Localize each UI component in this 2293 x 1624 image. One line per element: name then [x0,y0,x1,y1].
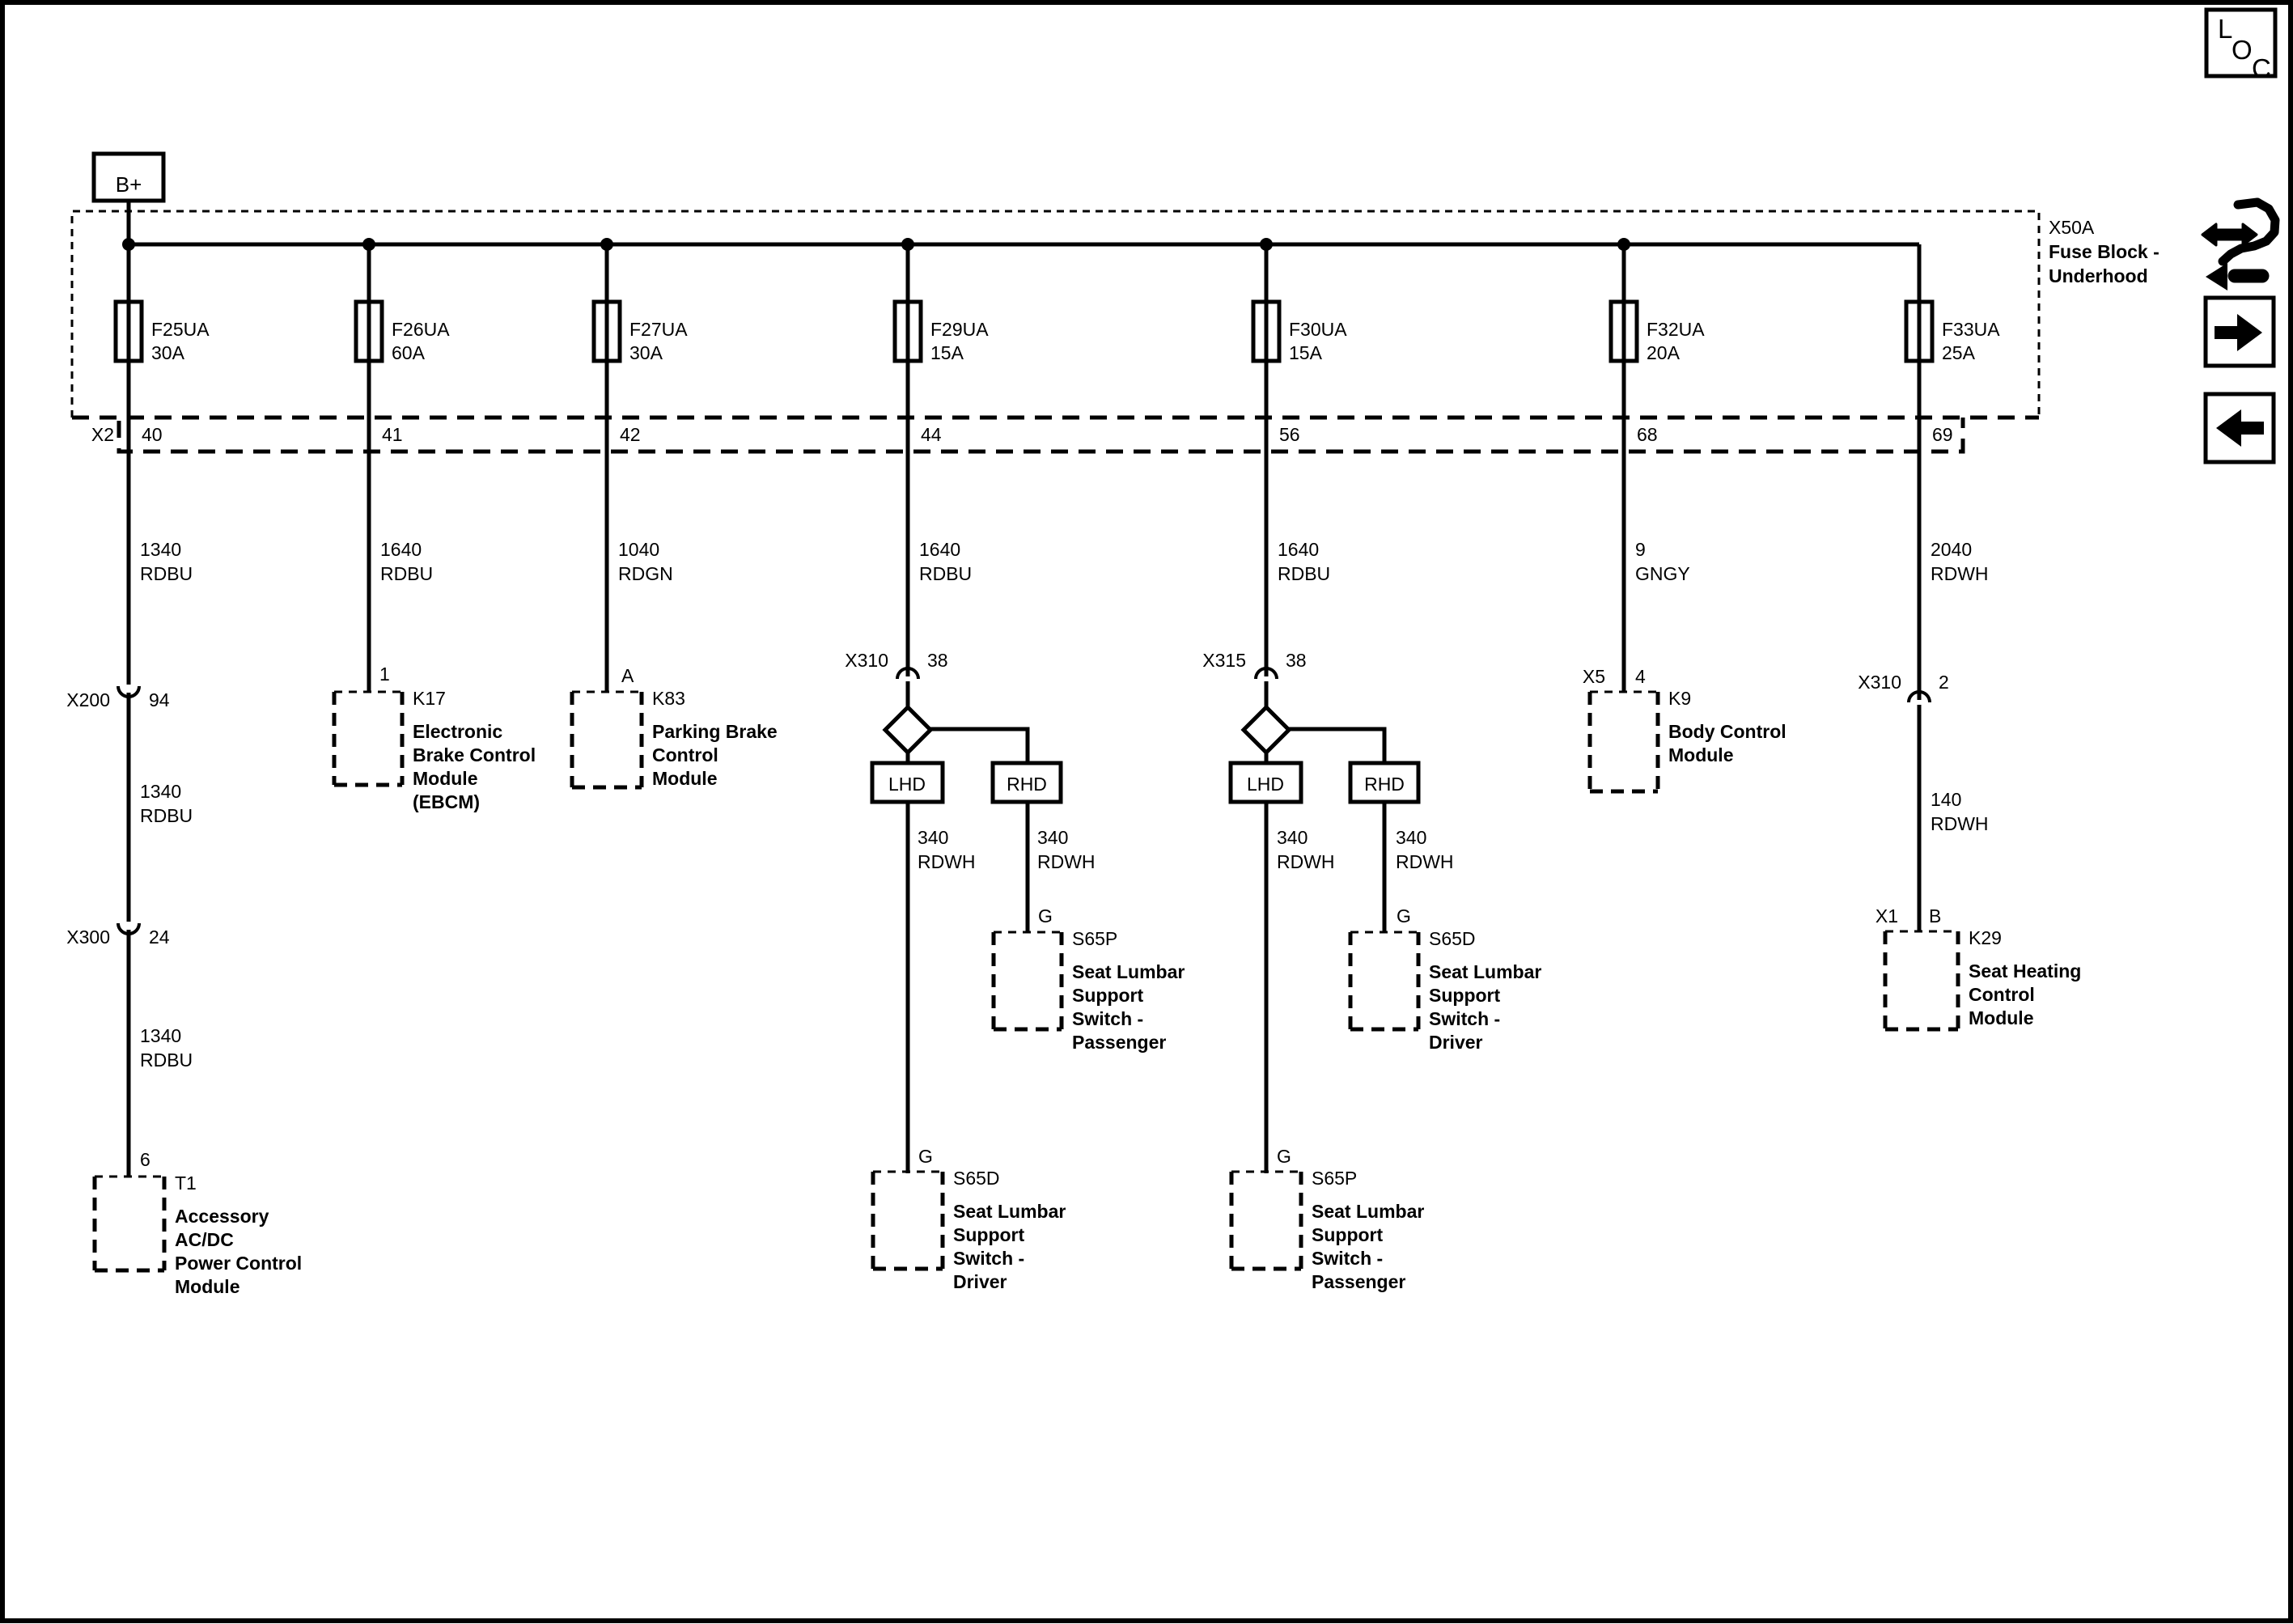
svg-text:Module: Module [652,768,718,789]
svg-text:69: 69 [1932,424,1953,445]
svg-text:1340: 1340 [140,1025,181,1046]
svg-text:RDBU: RDBU [140,805,193,826]
svg-text:Support: Support [1312,1224,1383,1245]
icon arrow left [2206,394,2274,462]
svg-text:X2: X2 [91,424,114,445]
wire 340 RDWH (LHD to S65P) [1266,802,1335,1173]
svg-text:1: 1 [379,664,390,685]
svg-text:(EBCM): (EBCM) [413,791,480,812]
wire 1640 RDBU (F26UA to K17) [369,244,433,691]
connector X315 pin 38 [1202,650,1306,679]
wire branch diamond to RHD [1289,729,1384,763]
svg-text:56: 56 [1279,424,1300,445]
connector X2 row [72,418,2039,452]
svg-text:Seat Heating: Seat Heating [1969,960,2081,982]
svg-text:Electronic: Electronic [413,721,502,742]
svg-text:S65P: S65P [1072,928,1117,949]
svg-text:Support: Support [1429,985,1500,1006]
svg-text:Switch -: Switch - [1312,1248,1383,1269]
option LHD [1231,763,1301,802]
svg-text:38: 38 [1286,650,1307,671]
wire 1040 RDGN (F27UA to K83) [607,244,673,691]
svg-text:Accessory: Accessory [175,1206,269,1227]
svg-text:1340: 1340 [140,539,181,560]
junction [362,238,375,251]
svg-text:F26UA: F26UA [392,319,450,340]
svg-text:LHD: LHD [888,774,926,795]
junction [901,238,914,251]
svg-text:6: 6 [140,1149,150,1170]
svg-text:1040: 1040 [618,539,659,560]
svg-text:Fuse Block -: Fuse Block - [2049,241,2159,262]
svg-text:G: G [1038,905,1053,926]
svg-text:RHD: RHD [1364,774,1405,795]
svg-text:9: 9 [1635,539,1646,560]
svg-text:RDWH: RDWH [1396,851,1454,872]
svg-text:Driver: Driver [953,1271,1007,1292]
svg-text:60A: 60A [392,342,426,363]
wire branch diamond to RHD [930,729,1028,763]
wire bus from B+ [127,243,1919,247]
svg-text:RDGN: RDGN [618,563,673,584]
svg-text:68: 68 [1637,424,1658,445]
svg-text:S65D: S65D [1429,928,1476,949]
svg-text:Module: Module [1969,1007,2034,1028]
svg-text:RDWH: RDWH [918,851,976,872]
svg-text:RDBU: RDBU [919,563,972,584]
svg-text:38: 38 [927,650,948,671]
junction [1617,238,1630,251]
svg-text:Seat Lumbar: Seat Lumbar [1312,1201,1424,1222]
wire 1340 RDBU (X200 to X300) [129,693,193,922]
fuse block X50A boundary [72,211,2159,418]
fuse F33UA 25A [1906,302,2000,363]
svg-text:Parking Brake: Parking Brake [652,721,778,742]
wire 9 GNGY (F32UA to K9) [1624,244,1690,691]
wire 340 RDWH (RHD to S65P) [1028,802,1096,933]
svg-text:K9: K9 [1668,688,1691,709]
svg-text:1640: 1640 [380,539,422,560]
svg-text:G: G [918,1146,933,1167]
svg-text:4: 4 [1635,666,1646,687]
svg-text:RDBU: RDBU [1278,563,1330,584]
svg-text:F33UA: F33UA [1942,319,2000,340]
fuse F32UA 20A [1611,302,1705,363]
svg-text:F25UA: F25UA [151,319,210,340]
wire X315 to diamond [1265,681,1269,707]
wire 2040 RDWH (F33UA to X310) [1919,244,1989,700]
svg-text:Seat Lumbar: Seat Lumbar [1429,961,1541,982]
svg-text:40: 40 [142,424,163,445]
svg-text:Body Control: Body Control [1668,721,1787,742]
svg-text:Control: Control [652,744,718,765]
svg-text:30A: 30A [629,342,663,363]
svg-text:2040: 2040 [1931,539,1972,560]
junction [122,238,135,251]
connector X200 pin 94 [66,686,170,710]
wire diamond to LHD [906,753,910,763]
svg-text:K29: K29 [1969,927,2002,948]
option LHD [872,763,943,802]
svg-text:LHD: LHD [1247,774,1284,795]
fuse F25UA 30A [116,302,210,363]
svg-text:Support: Support [953,1224,1024,1245]
svg-text:340: 340 [1396,827,1426,848]
svg-text:Underhood: Underhood [2049,265,2148,286]
svg-text:F29UA: F29UA [930,319,989,340]
svg-text:140: 140 [1931,789,1961,810]
svg-text:340: 340 [918,827,948,848]
svg-text:RDBU: RDBU [140,563,193,584]
wire X310 to diamond [906,681,910,707]
connector X300 pin 24 [66,923,170,948]
svg-text:S65D: S65D [953,1168,1000,1189]
connector X1 pin B [1876,905,1941,926]
svg-text:RDBU: RDBU [380,563,433,584]
svg-text:RDWH: RDWH [1931,563,1989,584]
svg-text:X200: X200 [66,689,110,710]
svg-text:15A: 15A [930,342,964,363]
svg-text:K83: K83 [652,688,685,709]
svg-text:1640: 1640 [1278,539,1319,560]
svg-text:Power Control: Power Control [175,1253,302,1274]
svg-text:GNGY: GNGY [1635,563,1690,584]
svg-text:RDWH: RDWH [1037,851,1096,872]
svg-text:AC/DC: AC/DC [175,1229,234,1250]
svg-text:Switch -: Switch - [1072,1008,1143,1029]
module S65D Seat Lumbar Support Switch - Driver [873,1168,1066,1292]
svg-text:A: A [621,665,634,686]
svg-text:340: 340 [1277,827,1308,848]
svg-text:F30UA: F30UA [1289,319,1347,340]
fuse F30UA 15A [1253,302,1347,363]
module K83 Parking Brake Control Module [572,688,778,789]
svg-text:15A: 15A [1289,342,1323,363]
svg-text:X5: X5 [1583,666,1605,687]
svg-text:L: L [2218,14,2232,44]
wire 140 RDWH (X310 to K29) [1919,705,1989,931]
svg-text:O: O [2232,35,2253,65]
wire 340 RDWH (RHD to S65D) [1384,802,1454,933]
svg-text:X300: X300 [66,926,110,948]
svg-text:G: G [1277,1146,1291,1167]
node B+ [94,154,163,201]
svg-text:Support: Support [1072,985,1143,1006]
svg-text:T1: T1 [175,1172,197,1194]
module S65P Seat Lumbar Support Switch - Passenger [1231,1168,1424,1292]
svg-text:Seat Lumbar: Seat Lumbar [953,1201,1066,1222]
svg-text:Driver: Driver [1429,1032,1483,1053]
svg-text:25A: 25A [1942,342,1976,363]
connector X310 pin 38 [845,650,947,679]
module K17 Electronic Brake Control Module (EBCM) [334,688,536,812]
svg-text:Passenger: Passenger [1312,1271,1405,1292]
svg-text:RDBU: RDBU [140,1049,193,1071]
svg-text:F32UA: F32UA [1647,319,1705,340]
svg-text:Passenger: Passenger [1072,1032,1166,1053]
svg-text:X310: X310 [845,650,888,671]
svg-text:RDWH: RDWH [1931,813,1989,834]
wire 340 RDWH (LHD to S65D) [908,802,976,1173]
svg-text:Module: Module [413,768,478,789]
svg-text:2: 2 [1939,672,1949,693]
svg-text:Brake Control: Brake Control [413,744,536,765]
svg-text:Switch -: Switch - [953,1248,1024,1269]
svg-text:340: 340 [1037,827,1068,848]
wire 1640 RDBU (F29UA to X310) [908,244,972,676]
svg-text:RDWH: RDWH [1277,851,1335,872]
wire 1340 RDBU (X300 to T1) [129,930,193,1177]
svg-text:Module: Module [175,1276,240,1297]
svg-text:X315: X315 [1202,650,1246,671]
svg-text:41: 41 [382,424,403,445]
module S65D Seat Lumbar Support Switch - Driver [1350,928,1541,1053]
svg-text:S65P: S65P [1312,1168,1357,1189]
svg-text:Control: Control [1969,984,2035,1005]
svg-text:B: B [1929,905,1941,926]
module K29 Seat Heating Control Module [1885,927,2081,1029]
option RHD [993,763,1061,802]
junction [600,238,613,251]
fuse F26UA 60A [356,302,450,363]
svg-text:Seat Lumbar: Seat Lumbar [1072,961,1185,982]
wire 1640 RDBU (F30UA to X315) [1266,244,1330,676]
svg-text:20A: 20A [1647,342,1681,363]
fuse F29UA 15A [895,302,989,363]
svg-text:X310: X310 [1858,672,1901,693]
junction [1260,238,1273,251]
svg-text:B+: B+ [116,172,142,197]
svg-text:F27UA: F27UA [629,319,688,340]
connector X5 pin 4 [1583,666,1646,687]
module T1 Accessory AC/DC Power Control Module [95,1172,302,1297]
svg-text:K17: K17 [413,688,446,709]
module K9 Body Control Module [1590,688,1787,791]
option split diamond [885,707,930,753]
option split diamond [1244,707,1289,753]
fuse F27UA 30A [594,302,688,363]
wire B+ feed [127,201,131,244]
svg-text:C: C [2252,53,2271,83]
svg-text:X1: X1 [1876,905,1898,926]
svg-text:30A: 30A [151,342,185,363]
svg-text:X50A: X50A [2049,217,2095,238]
icon arrow right [2206,298,2274,366]
connector X310 pin 2 [1858,672,1949,702]
svg-text:24: 24 [149,926,170,948]
LOC legend box [2206,10,2275,83]
svg-text:44: 44 [921,424,942,445]
svg-text:94: 94 [149,689,170,710]
svg-text:Switch -: Switch - [1429,1008,1500,1029]
svg-text:Module: Module [1668,744,1734,765]
svg-text:G: G [1397,905,1411,926]
wire diamond to LHD [1265,753,1269,763]
svg-text:RHD: RHD [1007,774,1047,795]
module S65P Seat Lumbar Support Switch - Passenger [994,928,1185,1053]
svg-text:1640: 1640 [919,539,960,560]
svg-text:42: 42 [620,424,641,445]
option RHD [1350,763,1418,802]
wire 1340 RDBU (F25UA to X200) [129,244,193,685]
icon power feed pigtail [2202,202,2275,290]
svg-text:1340: 1340 [140,781,181,802]
